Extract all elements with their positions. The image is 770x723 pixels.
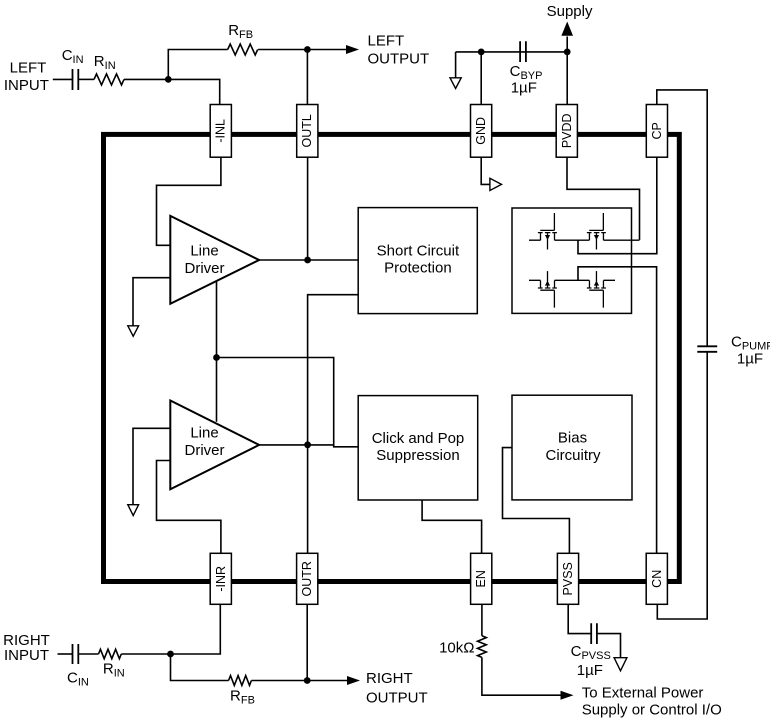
svg-text:CP: CP [650, 122, 664, 139]
svg-text:Driver: Driver [185, 442, 225, 459]
svg-text:OUTR: OUTR [300, 561, 314, 596]
svg-text:1µF: 1µF [577, 662, 603, 679]
svg-text:INPUT: INPUT [4, 77, 49, 94]
svg-text:-INL: -INL [214, 119, 228, 143]
svg-text:RIGHT: RIGHT [366, 670, 413, 687]
svg-text:To External Power: To External Power [582, 685, 704, 702]
svg-text:LEFT: LEFT [10, 59, 47, 76]
svg-text:Click and Pop: Click and Pop [372, 430, 465, 447]
svg-text:OUTPUT: OUTPUT [366, 689, 428, 706]
svg-text:PVSS: PVSS [561, 562, 575, 595]
svg-text:Circuitry: Circuitry [546, 447, 601, 464]
svg-text:INPUT: INPUT [4, 647, 49, 664]
svg-text:Driver: Driver [185, 260, 225, 277]
svg-text:Line: Line [190, 243, 218, 260]
svg-text:OUTPUT: OUTPUT [368, 50, 430, 67]
svg-text:RIN: RIN [103, 661, 125, 680]
svg-text:OUTL: OUTL [300, 114, 314, 147]
svg-text:EN: EN [474, 570, 488, 587]
svg-text:LEFT: LEFT [368, 33, 405, 50]
svg-text:Bias: Bias [558, 429, 587, 446]
svg-text:Protection: Protection [384, 260, 452, 277]
svg-text:Line: Line [190, 425, 218, 442]
svg-text:RFB: RFB [230, 688, 255, 707]
svg-text:CIN: CIN [62, 47, 84, 66]
svg-text:RIN: RIN [94, 53, 116, 72]
svg-text:-INR: -INR [214, 566, 228, 592]
svg-text:1µF: 1µF [737, 351, 763, 368]
svg-text:10kΩ: 10kΩ [439, 640, 474, 657]
svg-text:1µF: 1µF [511, 80, 537, 97]
svg-text:Suppression: Suppression [376, 447, 459, 464]
svg-text:GND: GND [474, 117, 488, 145]
svg-text:PVDD: PVDD [560, 113, 574, 148]
svg-text:CPVSS: CPVSS [571, 643, 611, 662]
svg-text:Supply: Supply [547, 3, 593, 20]
svg-text:CN: CN [650, 570, 664, 588]
svg-text:Short Circuit: Short Circuit [377, 243, 460, 260]
svg-text:CIN: CIN [67, 670, 89, 689]
svg-text:Supply or Control I/O: Supply or Control I/O [582, 702, 722, 719]
svg-text:RFB: RFB [228, 22, 253, 41]
